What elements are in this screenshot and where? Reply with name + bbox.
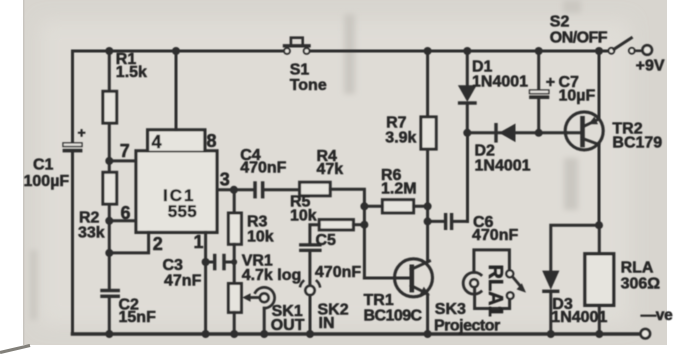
wire: C5 to SK2 <box>308 252 311 285</box>
svg-text:+: + <box>78 125 86 141</box>
svg-text:C1: C1 <box>33 157 54 174</box>
svg-text:RLA1: RLA1 <box>484 265 506 317</box>
potentiometer VR1 <box>228 284 258 313</box>
svg-text:1.5k: 1.5k <box>116 64 147 81</box>
svg-text:BC179: BC179 <box>612 134 662 151</box>
resistor R7 <box>421 117 436 149</box>
junction dot C3 left <box>202 258 210 266</box>
switch S2 ON/OFF <box>609 38 643 54</box>
junction dots bottom rail <box>105 330 603 338</box>
svg-text:10k: 10k <box>247 228 274 245</box>
svg-text:470nF: 470nF <box>240 159 286 176</box>
wire: relay branch horizontal <box>551 225 599 271</box>
label C7 value <box>546 74 596 105</box>
svg-text:10µF: 10µF <box>559 87 596 104</box>
label R6 value <box>381 167 417 197</box>
op-amp U1 : IC1 555 timer body <box>136 151 217 233</box>
junction dots collector column <box>424 202 432 225</box>
wire: R5 left to C5 <box>310 225 319 244</box>
junction dot TR2 collector node <box>595 221 603 229</box>
wire: R6 right stub <box>414 205 428 208</box>
svg-text:C3: C3 <box>163 257 184 274</box>
label SK2 <box>318 301 349 332</box>
svg-text:47nF: 47nF <box>164 273 202 290</box>
capacitor C5 <box>299 243 322 252</box>
label SK1 <box>271 303 305 334</box>
label R2 value <box>78 210 105 242</box>
wire: pin 7 stub <box>109 159 136 162</box>
svg-text:OUT: OUT <box>271 317 305 334</box>
label R7 value <box>385 114 416 146</box>
label R5 value <box>290 193 317 224</box>
transistor Q2 : TR2 BC179 <box>565 112 603 150</box>
capacitor C6 <box>428 213 468 230</box>
wire: R7 branch vertical <box>426 51 429 262</box>
svg-text:4.7k log: 4.7k log <box>242 267 302 284</box>
wire: R1/R2 branch vertical <box>108 51 111 334</box>
svg-text:1.2M: 1.2M <box>381 180 417 197</box>
svg-text:4: 4 <box>152 132 162 152</box>
svg-text:S1: S1 <box>290 61 310 78</box>
junction dot C7 bottom <box>535 129 543 137</box>
socket SK3 jack <box>463 272 481 294</box>
resistor R5 <box>319 220 353 230</box>
wire: pin 6 stub <box>109 219 136 222</box>
label R4 value <box>317 148 344 178</box>
label S2 <box>550 13 608 46</box>
resistor R4 <box>300 182 331 196</box>
wire: pin 1 down to 0V rail <box>204 232 207 334</box>
wire: TR1 emitter to 0V rail <box>426 295 429 335</box>
svg-text:7: 7 <box>120 141 130 161</box>
label C2 value <box>119 296 157 326</box>
resistor R2 <box>103 172 117 204</box>
svg-text:470nF: 470nF <box>315 264 361 281</box>
label C1 value <box>24 157 70 191</box>
label C4 value <box>240 147 286 177</box>
junction dot C3 right <box>231 259 237 265</box>
label TR2 <box>612 120 662 151</box>
svg-text:IN: IN <box>319 315 335 332</box>
wire: R3 to VR1 <box>233 244 236 283</box>
svg-text:10k: 10k <box>290 207 317 224</box>
label C5 value <box>315 232 361 281</box>
capacitor C7 <box>529 51 549 133</box>
svg-text:BC109C: BC109C <box>364 307 423 324</box>
svg-text:Tone: Tone <box>290 77 327 94</box>
label SK3 <box>434 301 500 334</box>
wire: TR2 emitter to +9V rail <box>598 51 601 120</box>
svg-text:47k: 47k <box>317 161 344 178</box>
svg-text:3: 3 <box>220 169 230 189</box>
wire: R4 to node column <box>330 189 364 278</box>
junction dots top rail <box>105 47 603 55</box>
svg-text:6: 6 <box>121 203 131 223</box>
svg-text:555: 555 <box>168 202 197 221</box>
capacitor C2 <box>100 289 120 298</box>
wire: SK3/RLA1 loop bottom bar <box>475 288 510 309</box>
wire: C6 up to D1/D2 node <box>466 133 469 222</box>
svg-text:+: + <box>546 74 555 91</box>
svg-text:8: 8 <box>207 131 217 151</box>
label VR1 value <box>242 252 302 284</box>
junction dots left column <box>105 157 113 257</box>
capacitor C3 <box>206 254 235 270</box>
label C3 value <box>163 257 202 290</box>
diode D3 <box>542 271 559 334</box>
svg-text:470nF: 470nF <box>472 227 518 244</box>
svg-text:1N4001: 1N4001 <box>475 157 531 174</box>
wire: bottom 0V rail <box>73 332 641 336</box>
label R3 value <box>247 213 274 245</box>
svg-text:Projector: Projector <box>434 317 500 334</box>
label IC1 <box>163 186 197 221</box>
junction dots base node column <box>360 202 368 228</box>
wire: top +9V rail right segment <box>310 50 609 53</box>
wire: R6 left stub <box>364 205 382 208</box>
capacitor C1 <box>63 125 86 153</box>
label C6 value <box>472 214 518 244</box>
svg-text:C5: C5 <box>316 232 337 249</box>
switch S1 push button <box>284 38 309 54</box>
wire: top +9V rail left segment <box>73 50 285 53</box>
svg-text:306Ω: 306Ω <box>621 275 661 292</box>
svg-text:ON/OFF: ON/OFF <box>550 29 608 46</box>
wire: R5 right stub <box>353 223 364 226</box>
IC1 top tab (pins 4,8) <box>148 130 205 151</box>
wire: left supply rail vertical <box>71 51 74 334</box>
svg-text:2: 2 <box>153 234 163 254</box>
diode D1 <box>458 51 477 133</box>
svg-text:1N4001: 1N4001 <box>472 73 528 90</box>
wire: VR1 to 0V rail <box>233 312 236 334</box>
node -ve terminal <box>641 329 650 338</box>
socket SK1 jack <box>255 287 274 334</box>
svg-text:100µF: 100µF <box>24 173 70 190</box>
label TR1 <box>364 292 423 324</box>
wire: SK3/RLA1 loop top bar <box>474 250 510 272</box>
svg-text:—ve: —ve <box>641 307 674 324</box>
label R1 value <box>116 51 147 81</box>
relay contact RLA1 <box>506 270 526 299</box>
svg-text:33k: 33k <box>78 224 105 241</box>
svg-text:+9V: +9V <box>636 57 665 74</box>
label S1 <box>290 61 327 94</box>
resistor R1 <box>103 91 117 123</box>
junction dot D1/D2 node <box>463 129 471 137</box>
svg-text:3.9k: 3.9k <box>385 130 416 147</box>
wire: pin 3 stub <box>217 188 234 191</box>
wire: D2 row <box>467 131 567 134</box>
wire: pin3 node down to R3 <box>233 190 236 213</box>
svg-text:S2: S2 <box>550 13 570 30</box>
label D1 value <box>472 58 528 90</box>
wire: pin 2 stub <box>109 232 148 253</box>
diode D2 <box>494 123 515 143</box>
resistor R3 <box>228 213 241 244</box>
svg-text:SK3: SK3 <box>435 301 466 318</box>
label RLA value <box>621 259 661 292</box>
socket SK2 jack <box>300 281 320 334</box>
label D2 value <box>475 142 531 174</box>
svg-text:15nF: 15nF <box>119 309 157 326</box>
junction dot pin3 node <box>230 186 238 194</box>
label D3 value <box>551 296 607 326</box>
resistor R6 <box>382 200 413 213</box>
svg-text:RLA: RLA <box>621 259 654 276</box>
svg-text:1: 1 <box>194 232 204 252</box>
transistor Q1 : TR1 BC109C <box>364 259 432 297</box>
node +9V terminal <box>643 45 652 54</box>
capacitor C4 <box>234 181 300 198</box>
relay coil RLA <box>585 225 614 334</box>
wire: supply feed to IC tab <box>175 51 178 130</box>
wire: TR2 collector down <box>598 144 601 225</box>
